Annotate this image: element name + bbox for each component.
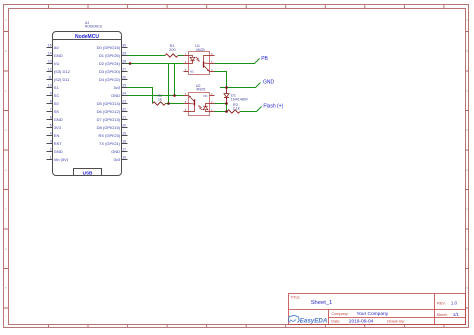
- svg-text:20: 20: [122, 124, 126, 128]
- wire D2/GPIO4 to U1 pin 2: [128, 63, 184, 65]
- svg-text:G: G: [5, 248, 7, 251]
- svg-text:Your Company: Your Company: [357, 311, 389, 317]
- svg-text:Date:: Date:: [331, 319, 340, 323]
- svg-text:19: 19: [122, 132, 126, 136]
- wire U2 pin 2 to D1 anode node: [215, 103, 227, 105]
- U4 pin 27 (D3 (GPIO0)): [122, 71, 128, 73]
- svg-text:D6 (GPIO12): D6 (GPIO12): [97, 109, 121, 114]
- wire R3 to Flash label: [240, 107, 262, 112]
- resistor R3: [227, 110, 240, 113]
- svg-text:GND: GND: [54, 117, 63, 122]
- svg-text:15: 15: [48, 44, 52, 48]
- title block: [289, 294, 466, 325]
- U4 pin 22 (D6 (GPIO12)): [122, 111, 128, 113]
- svg-text:25: 25: [122, 84, 126, 88]
- svg-text:14: 14: [48, 52, 52, 56]
- svg-text:1: 1: [50, 156, 52, 160]
- svg-text:4: 4: [50, 132, 52, 136]
- svg-text:USB: USB: [83, 170, 93, 175]
- svg-text:D2 (GPIO4): D2 (GPIO4): [99, 61, 121, 66]
- EasyEDA logo: [288, 315, 299, 322]
- svg-text:C: C: [466, 90, 468, 93]
- svg-text:Vin (5V): Vin (5V): [54, 157, 69, 162]
- svg-text:(S3) D12: (S3) D12: [54, 69, 71, 74]
- svg-text:C: C: [5, 90, 7, 93]
- svg-text:1/1: 1/1: [453, 312, 460, 317]
- svg-text:28: 28: [122, 60, 126, 64]
- svg-text:TITLE:: TITLE:: [290, 296, 300, 300]
- svg-text:GND: GND: [54, 53, 63, 58]
- svg-text:Drawn By:: Drawn By:: [387, 320, 405, 324]
- svg-text:D5 (GPIO14): D5 (GPIO14): [97, 101, 121, 106]
- resistor R1: [165, 54, 178, 57]
- svg-text:18: 18: [122, 140, 126, 144]
- svg-text:Company:: Company:: [331, 312, 348, 316]
- wire GND to U2 pin 4: [128, 95, 184, 97]
- svg-text:D3 (GPIO0): D3 (GPIO0): [99, 69, 121, 74]
- wire 3V3 to R2: [128, 88, 153, 104]
- wire R2 to U2 pin 5: [166, 103, 184, 105]
- svg-text:GND: GND: [54, 149, 63, 154]
- wire vertical U1 cathode to GND rail: [174, 64, 176, 96]
- svg-text:Sheet_1: Sheet_1: [311, 300, 333, 306]
- svg-text:4N25: 4N25: [196, 88, 205, 92]
- svg-text:D: D: [5, 129, 7, 132]
- NodeMCU U4 body: [53, 32, 122, 176]
- svg-text:Flash (+): Flash (+): [263, 104, 283, 110]
- U4 pin 11 ((S2) D11): [47, 79, 53, 81]
- svg-text:8: 8: [50, 100, 52, 104]
- svg-text:2019-09-04: 2019-09-04: [349, 319, 374, 325]
- U4 pin 30 (D0 (GPIO16)): [122, 47, 128, 49]
- svg-text:5: 5: [50, 124, 52, 128]
- U4 pin 29 (D1 (GPIO5)): [122, 55, 128, 57]
- U4 pin 1 (Vin (5V)): [47, 159, 53, 161]
- svg-text:2: 2: [50, 148, 52, 152]
- svg-text:NODEMCU: NODEMCU: [85, 25, 103, 29]
- U4 pin 10 (S1): [47, 87, 53, 89]
- wire U1 pin 4 down to GND node: [215, 72, 227, 88]
- junction node U1 emitter / GND label / D1: [225, 86, 228, 89]
- wire D1/GPIO5 to R1: [128, 55, 166, 57]
- U4 pin 9 (SC): [47, 95, 53, 97]
- svg-text:11: 11: [48, 76, 52, 80]
- svg-text:21: 21: [122, 116, 126, 120]
- svg-text:NC: NC: [204, 94, 208, 98]
- svg-text:EasyEDA: EasyEDA: [300, 318, 328, 325]
- svg-text:29: 29: [122, 52, 126, 56]
- svg-text:D8 (GPIO15): D8 (GPIO15): [97, 125, 121, 130]
- svg-text:10: 10: [48, 84, 52, 88]
- svg-text:22: 22: [122, 108, 126, 112]
- svg-text:27: 27: [122, 68, 126, 72]
- svg-text:2.1k: 2.1k: [233, 107, 240, 111]
- U4 pin 25 (3v3): [122, 87, 128, 89]
- svg-text:1.0: 1.0: [451, 301, 458, 306]
- U4 pin 28 (D2 (GPIO4)): [122, 63, 128, 65]
- U4 pin 4 (EN): [47, 135, 53, 137]
- svg-text:G: G: [466, 248, 468, 251]
- svg-text:SC: SC: [54, 93, 60, 98]
- svg-text:4N25: 4N25: [196, 48, 205, 52]
- U4 pin 26 (D4 (GPIO2)): [122, 79, 128, 81]
- svg-text:17: 17: [122, 148, 126, 152]
- svg-text:PB: PB: [261, 56, 268, 62]
- wire R1 to U1 pin 1: [178, 55, 184, 57]
- svg-text:Sheet:: Sheet:: [437, 313, 448, 317]
- junction node R3 / U2 pin1: [225, 110, 228, 113]
- svg-text:30: 30: [122, 44, 126, 48]
- svg-text:S0: S0: [54, 101, 60, 106]
- svg-text:26: 26: [122, 76, 126, 80]
- wire U1 pin 5 to PB label: [215, 59, 260, 64]
- svg-text:(S2) D11: (S2) D11: [54, 77, 70, 82]
- U4 pin 14 (GND): [47, 55, 53, 57]
- svg-text:3: 3: [50, 140, 52, 144]
- wire D1 node down to R3: [226, 104, 228, 112]
- svg-text:3V3: 3V3: [54, 125, 62, 130]
- svg-text:D1 (GPIO5): D1 (GPIO5): [99, 53, 121, 58]
- svg-text:RX (GPIO3): RX (GPIO3): [98, 133, 120, 138]
- svg-text:13: 13: [48, 60, 52, 64]
- wire vertical GPIO4 node to R2 node: [168, 64, 170, 104]
- U4 pin 15 (A0): [47, 47, 53, 49]
- svg-text:H: H: [466, 287, 468, 290]
- U4 USB connector box: [74, 169, 102, 176]
- svg-text:24: 24: [122, 92, 126, 96]
- svg-text:EN: EN: [54, 133, 60, 138]
- svg-text:GND: GND: [111, 93, 120, 98]
- U4 pin 8 (S0): [47, 103, 53, 105]
- junction node GND rail: [173, 94, 176, 97]
- U4 pin 6 (GND): [47, 119, 53, 121]
- svg-text:1k: 1k: [158, 97, 162, 101]
- junction node R2 / U2 pin5: [167, 102, 170, 105]
- U4 pin 5 (3V3): [47, 127, 53, 129]
- svg-text:GND: GND: [111, 149, 120, 154]
- svg-text:3v3: 3v3: [114, 85, 121, 90]
- junction node D1 / U2 pin2: [225, 102, 228, 105]
- svg-text:3v3: 3v3: [114, 157, 121, 162]
- U4 pin 12 ((S3) D12): [47, 71, 53, 73]
- svg-text:1N4148W: 1N4148W: [231, 98, 248, 102]
- U4 pin 7 (SK): [47, 111, 53, 113]
- U4 pin 2 (GND): [47, 151, 53, 153]
- optocoupler U2 4N25 (rotated 180): [184, 93, 215, 116]
- svg-text:NC: NC: [190, 70, 194, 74]
- U4 pin 21 (D7 (GPIO13)): [122, 119, 128, 121]
- svg-text:TX (GPIO1): TX (GPIO1): [99, 141, 121, 146]
- U4 pin 20 (D8 (GPIO15)): [122, 127, 128, 129]
- svg-text:D: D: [466, 129, 468, 132]
- svg-text:23: 23: [122, 100, 126, 104]
- svg-text:6: 6: [50, 116, 52, 120]
- svg-text:D7 (GPIO13): D7 (GPIO13): [97, 117, 121, 122]
- svg-text:GND: GND: [263, 80, 275, 86]
- U4 pin 16 (3v3): [122, 159, 128, 161]
- svg-text:D0 (GPIO16): D0 (GPIO16): [97, 45, 121, 50]
- U4 pin 3 (RST): [47, 143, 53, 145]
- U4 pin 17 (GND): [122, 151, 128, 153]
- svg-text:D4 (GPIO2): D4 (GPIO2): [99, 77, 121, 82]
- svg-text:SK: SK: [54, 109, 60, 114]
- U4 pin 19 (RX (GPIO3)): [122, 135, 128, 137]
- svg-text:RST: RST: [54, 141, 63, 146]
- svg-text:A0: A0: [54, 45, 60, 50]
- resistor R2: [153, 102, 166, 105]
- optocoupler U1 4N25: [184, 52, 215, 75]
- U4 pin 23 (D5 (GPIO14)): [122, 103, 128, 105]
- svg-text:S1: S1: [54, 85, 60, 90]
- svg-text:REV:: REV:: [437, 302, 446, 306]
- junction node GPIO4 pin: [129, 62, 132, 65]
- svg-text:NodeMCU: NodeMCU: [75, 34, 99, 40]
- svg-text:VU: VU: [54, 61, 60, 66]
- U4 pin 24 (GND): [122, 95, 128, 97]
- U4 pin 13 (VU): [47, 63, 53, 65]
- svg-text:200: 200: [169, 48, 175, 52]
- svg-text:H: H: [5, 287, 7, 290]
- wire GND node to GND label: [220, 83, 261, 88]
- wire U2 pin 1 to R3 node: [215, 111, 227, 113]
- diode D1 1N4148W: [224, 88, 229, 104]
- svg-text:7: 7: [50, 108, 52, 112]
- svg-text:16: 16: [122, 156, 126, 160]
- svg-text:9: 9: [50, 92, 52, 96]
- U4 pin 18 (TX (GPIO1)): [122, 143, 128, 145]
- svg-text:12: 12: [48, 68, 52, 72]
